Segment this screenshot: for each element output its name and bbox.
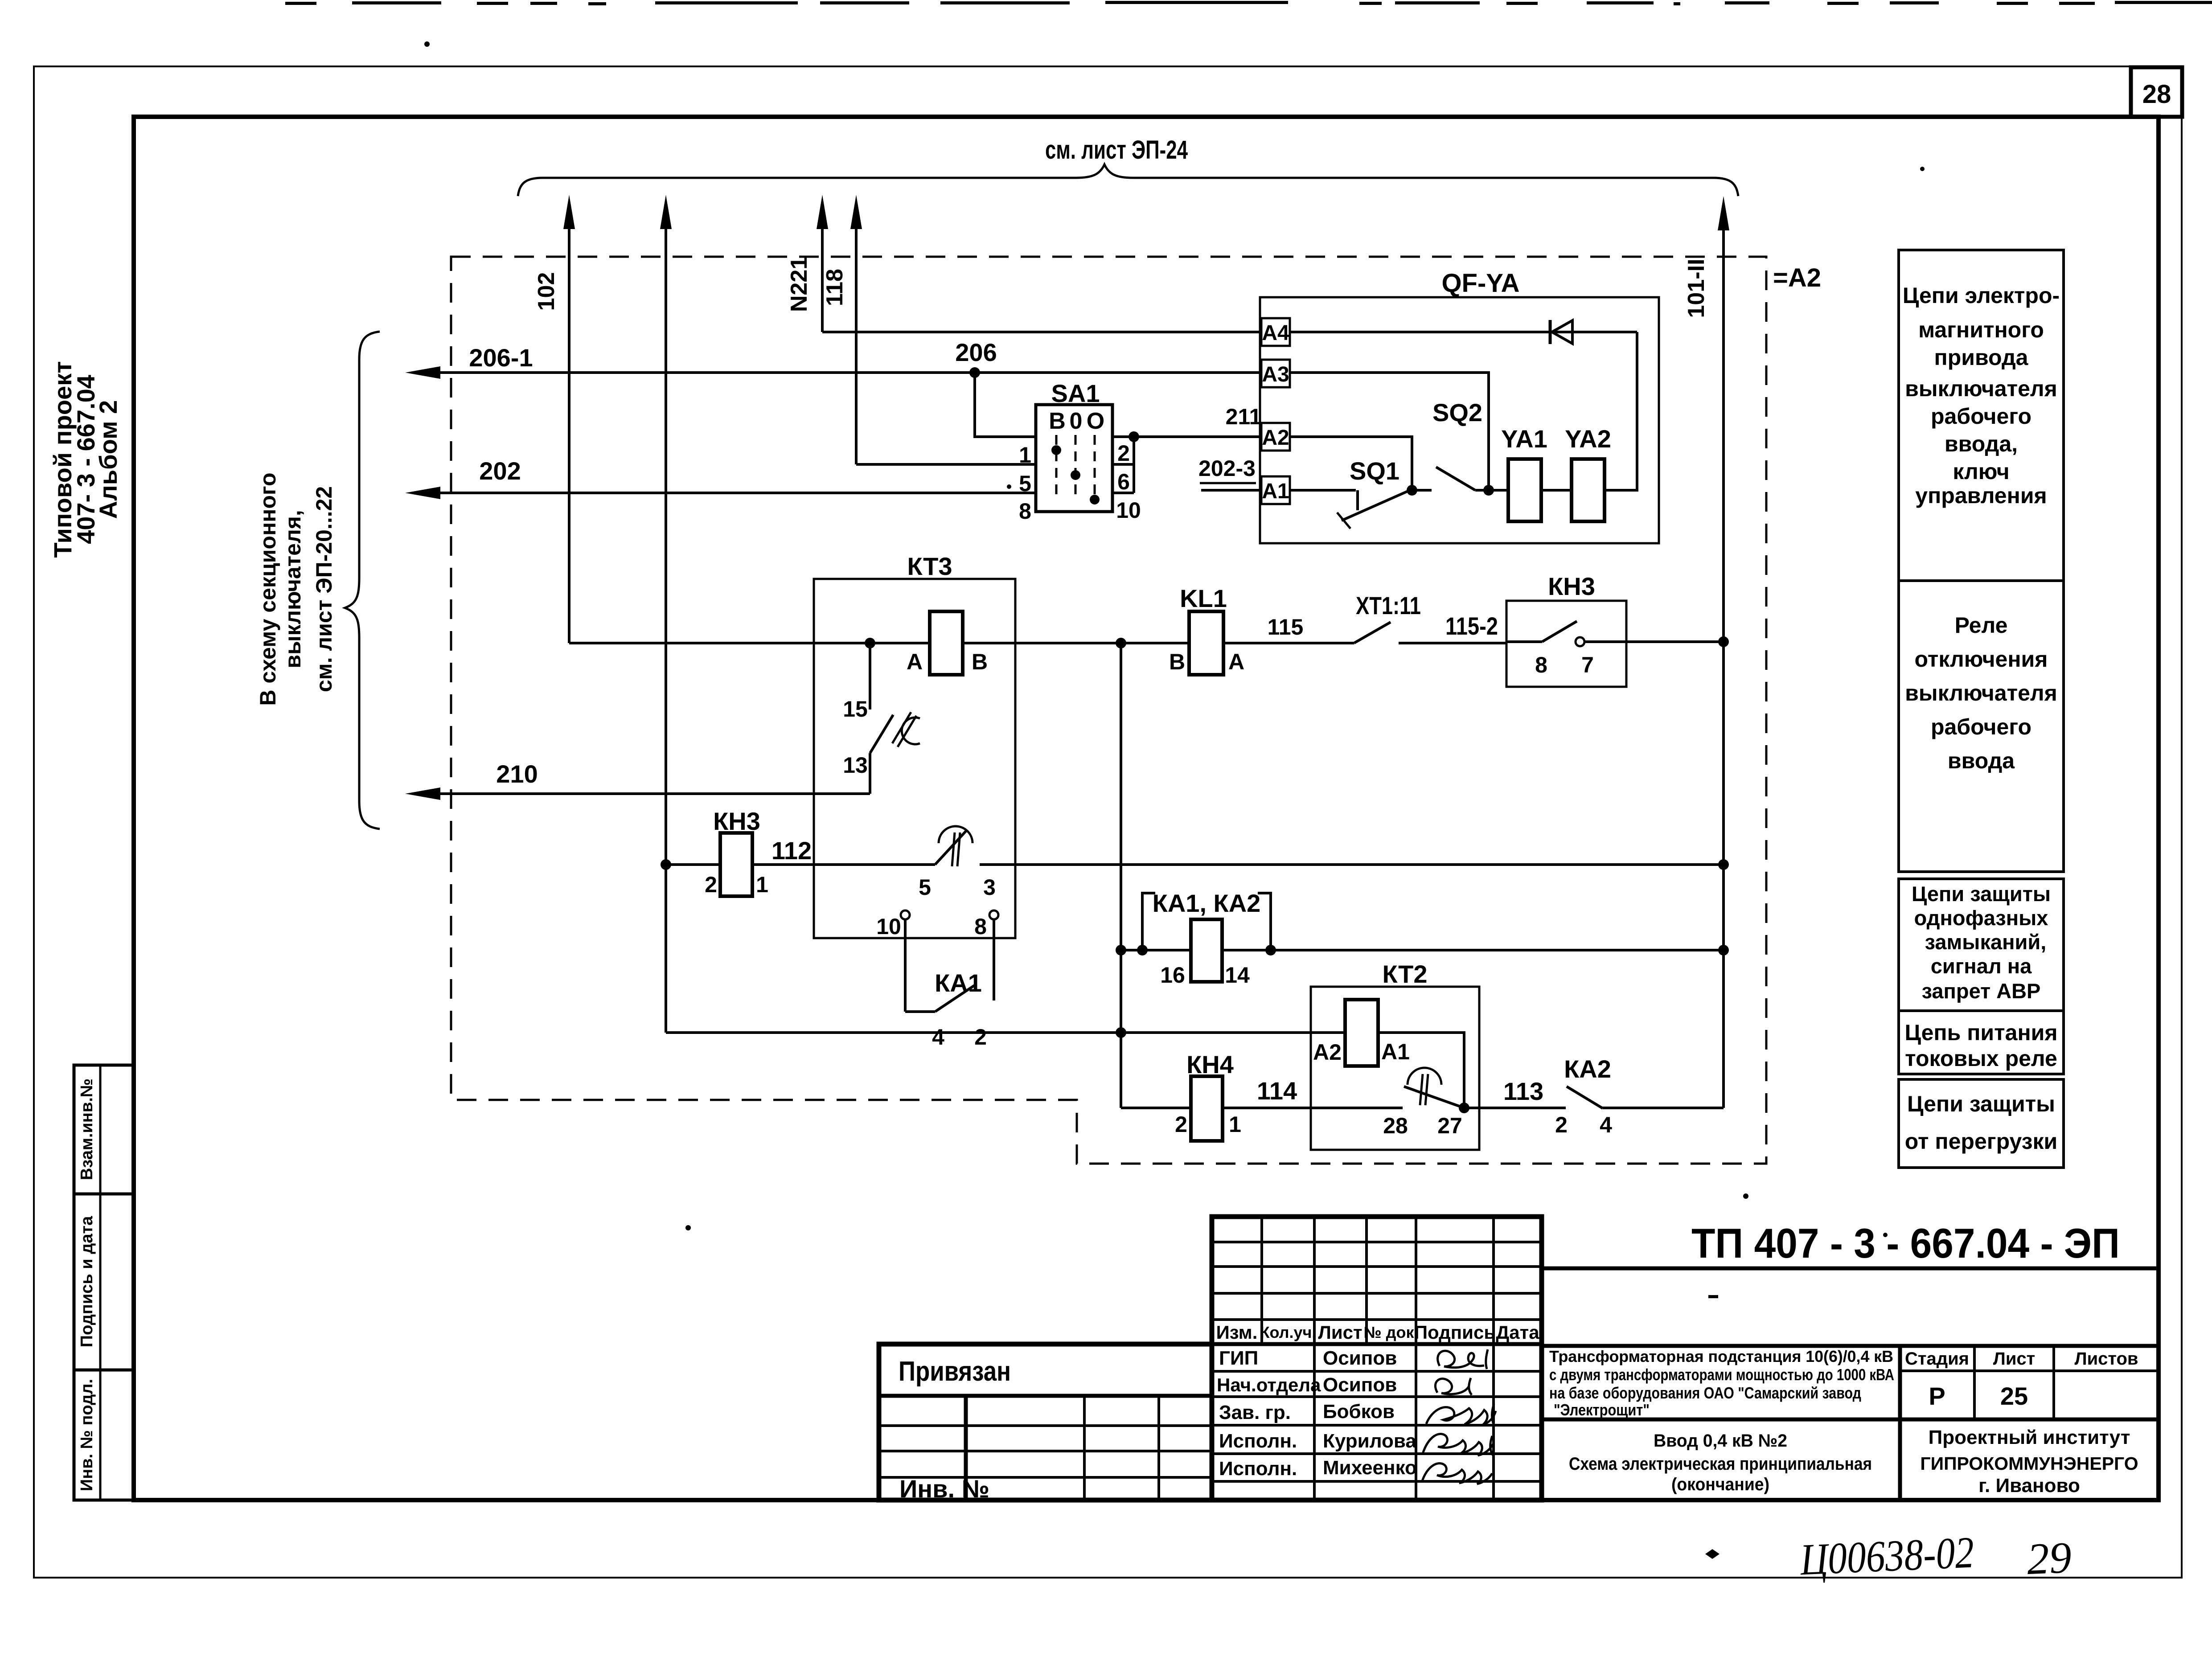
speck dot 2 <box>1920 167 1925 171</box>
wire 115 <box>1223 642 1354 644</box>
svg-text:2: 2 <box>1555 1112 1568 1137</box>
svg-text:2: 2 <box>705 872 717 897</box>
svg-text:118: 118 <box>822 269 848 306</box>
coil KT2 <box>1345 1000 1378 1066</box>
contact KA2 2-4 <box>1567 1087 1603 1108</box>
left curly brace <box>345 332 380 829</box>
binding box Привязан <box>879 1344 1212 1500</box>
wire 211 <box>1112 435 1261 438</box>
wire 118 riser with arrow <box>850 195 862 464</box>
svg-text:115: 115 <box>1268 615 1304 640</box>
junction node 101-II row1 <box>1718 636 1729 647</box>
svg-text:Цепи защиты: Цепи защиты <box>1912 882 2051 906</box>
svg-text:211: 211 <box>1226 404 1262 429</box>
svg-text:B: B <box>1049 408 1066 434</box>
title block document number area <box>1542 1217 2159 1500</box>
breaker drive unit QF-YA box <box>1260 297 1659 543</box>
KT3 pin 8 terminal <box>989 910 998 1000</box>
junction node 211 <box>1129 431 1139 442</box>
junction node KT2 row <box>1116 1027 1126 1038</box>
svg-text:запрет АВР: запрет АВР <box>1922 979 2041 1003</box>
svg-text:KL1: KL1 <box>1180 584 1227 612</box>
relay coils KA1 KA2 <box>1121 893 1271 982</box>
wire 101-II riser with arrow <box>1718 196 1729 1108</box>
wire YA2 return to diode <box>1605 332 1637 490</box>
signature 5 <box>1422 1464 1492 1484</box>
signature 4 <box>1423 1434 1493 1456</box>
svg-text:КА1: КА1 <box>935 969 982 997</box>
svg-text:16: 16 <box>1160 963 1185 988</box>
svg-text:A2: A2 <box>1313 1040 1342 1065</box>
svg-text:КН3: КН3 <box>1548 572 1595 600</box>
svg-text:25: 25 <box>2000 1382 2028 1410</box>
svg-text:с двумя трансформаторами мощно: с двумя трансформаторами мощностью до 10… <box>1549 1365 1894 1384</box>
wire 102 riser with arrow <box>563 195 575 643</box>
svg-text:ввода: ввода <box>1948 748 2015 773</box>
terminal A3 <box>1261 360 1290 387</box>
svg-text:привода: привода <box>1934 345 2029 370</box>
coil YA1 <box>1508 459 1541 521</box>
junction node KA bracket right <box>1265 945 1276 955</box>
junction node 101-II row3 <box>1718 859 1729 870</box>
svg-text:управления: управления <box>1915 483 2047 508</box>
svg-text:отключения: отключения <box>1915 647 2048 672</box>
junction node KA row left <box>1116 945 1126 955</box>
margin box Взам.инв.№ <box>74 1065 134 1194</box>
signature 1 <box>1438 1349 1488 1369</box>
svg-text:SQ1: SQ1 <box>1350 457 1399 485</box>
svg-text:10: 10 <box>876 914 901 939</box>
speck dot 4 <box>685 1225 691 1230</box>
sheet number box 28 <box>2131 67 2182 117</box>
coil KT3 <box>930 611 963 675</box>
contact KT2 28-27 time-delay <box>1404 1068 1464 1108</box>
svg-text:101-II: 101-II <box>1683 259 1709 318</box>
switch SA1 <box>1036 405 1112 512</box>
svg-text:Альбом 2: Альбом 2 <box>94 400 122 519</box>
svg-text:Подпись: Подпись <box>1414 1322 1495 1343</box>
svg-text:Нач.отдела: Нач.отдела <box>1217 1374 1321 1395</box>
speck <box>1007 484 1011 489</box>
svg-text:8: 8 <box>974 914 987 939</box>
function box Цепи защиты от перегрузки <box>1899 1079 2064 1168</box>
limit switch contact SQ1 <box>1337 489 1412 529</box>
relay KL1 coil <box>1189 611 1223 675</box>
svg-text:Инв. № подл.: Инв. № подл. <box>78 1379 96 1491</box>
terminal A4 <box>1261 318 1290 346</box>
function box Цепи электромагнитного привода <box>1899 250 2064 581</box>
terminal contact XT1:11 <box>1354 622 1391 643</box>
wire 210 with arrow <box>405 787 870 800</box>
wire KA2 to 101-II <box>1603 1107 1724 1109</box>
svg-text:Изм.: Изм. <box>1216 1322 1258 1343</box>
svg-text:0: 0 <box>1070 408 1083 434</box>
wire КН3 to 101-II <box>1626 640 1724 643</box>
terminal A2 <box>1261 423 1290 451</box>
svg-text:5: 5 <box>1019 471 1031 496</box>
handwritten inventory number Ц00638-02 29 <box>1798 1523 2072 1594</box>
svg-text:рабочего: рабочего <box>1931 404 2031 429</box>
svg-text:O: O <box>1087 408 1104 434</box>
wire SQ1 node to SQ2 <box>1412 489 1432 492</box>
function box Цепи защиты однофазных замыканий <box>1899 879 2064 1011</box>
function box Реле отключения <box>1899 581 2064 872</box>
svg-text:КА1, КА2: КА1, КА2 <box>1153 889 1261 917</box>
svg-text:от перегрузки: от перегрузки <box>1905 1129 2058 1154</box>
svg-text:A2: A2 <box>1262 426 1289 450</box>
project description <box>1549 1347 1894 1419</box>
wire 112 <box>752 863 935 866</box>
svg-text:(окончание): (окончание) <box>1671 1475 1769 1494</box>
svg-text:сигнал на: сигнал на <box>1931 954 2032 978</box>
wire riser to КТ3 circuit <box>660 195 672 1033</box>
svg-text:Привязан: Привязан <box>899 1356 1011 1387</box>
margin box Подпись и дата <box>74 1194 134 1370</box>
sheet name Ввод 0,4 кВ №2 <box>1569 1431 1872 1494</box>
svg-text:Кол.уч.: Кол.уч. <box>1260 1323 1317 1341</box>
wire 3 to 101-II <box>980 863 1724 866</box>
svg-text:B: B <box>1169 649 1185 674</box>
svg-text:10: 10 <box>1116 498 1141 523</box>
test jack КН4 <box>1191 1076 1223 1141</box>
svg-text:202-3: 202-3 <box>1198 456 1256 481</box>
wire A4 to diode loop <box>1290 331 1637 333</box>
svg-text:В схему секционного: В схему секционного <box>255 472 280 705</box>
svg-text:"Электрощит": "Электрощит" <box>1554 1401 1650 1419</box>
svg-text:102: 102 <box>534 272 559 311</box>
speck dot 3 <box>1743 1193 1748 1199</box>
svg-text:1: 1 <box>756 872 768 897</box>
time relay KT3 box <box>814 579 1015 938</box>
svg-text:Инв. №: Инв. № <box>899 1475 989 1503</box>
svg-text:Ввод 0,4 кВ №2: Ввод 0,4 кВ №2 <box>1654 1431 1787 1451</box>
junction node KT3 15 <box>865 638 875 648</box>
svg-text:Исполн.: Исполн. <box>1219 1430 1297 1452</box>
svg-text:5: 5 <box>919 875 931 900</box>
junction node SQ1 <box>1407 485 1417 496</box>
wire KT3 B to KL1 B <box>963 642 1189 644</box>
svg-text:1: 1 <box>1019 443 1031 467</box>
svg-text:магнитного: магнитного <box>1918 317 2044 342</box>
wire 206-1 to section breaker with arrow <box>405 366 1261 379</box>
contact KT3 13 time-delay <box>870 712 920 794</box>
svg-text:Цепь питания: Цепь питания <box>1904 1020 2057 1045</box>
wire 113 <box>1464 1107 1566 1109</box>
svg-text:ГИП: ГИП <box>1219 1347 1258 1369</box>
svg-text:Ц00638-02: Ц00638-02 <box>1798 1527 1975 1584</box>
svg-text:выключателя: выключателя <box>1905 681 2057 705</box>
junction node 101-II row4 <box>1718 945 1729 955</box>
svg-text:ключ: ключ <box>1953 459 2009 484</box>
svg-text:ТП 407 - 3 - 667.04 - ЭП: ТП 407 - 3 - 667.04 - ЭП <box>1691 1220 2120 1267</box>
svg-text:КН3: КН3 <box>713 807 760 835</box>
svg-text:112: 112 <box>772 836 812 865</box>
junction node KA bracket left <box>1137 945 1148 955</box>
svg-text:выключателя: выключателя <box>1905 376 2057 401</box>
diode VD <box>1550 320 1572 344</box>
label Инв. № <box>899 1475 989 1503</box>
svg-text:см. лист ЭП-24: см. лист ЭП-24 <box>1045 135 1188 164</box>
svg-text:XT1:11: XT1:11 <box>1356 591 1421 619</box>
stamp diamond mark <box>1705 1549 1720 1559</box>
svg-text:№ док.: № док. <box>1364 1323 1419 1341</box>
svg-text:28: 28 <box>2142 80 2171 109</box>
inner thick drawing frame <box>134 117 2159 1500</box>
top curly brace см. лист ЭП-24 <box>518 164 1738 196</box>
institute name <box>1920 1427 2138 1497</box>
svg-text:Зав. гр.: Зав. гр. <box>1219 1402 1291 1423</box>
dashed cabinet boundary =A2 <box>451 257 1766 1164</box>
wire 202-3 stub <box>1201 489 1261 492</box>
wire 114 <box>1223 1107 1403 1109</box>
svg-text:Р: Р <box>1929 1382 1945 1410</box>
junction node 27 <box>1459 1103 1469 1113</box>
svg-text:7: 7 <box>1581 652 1594 677</box>
svg-text:Трансформаторная подстанция 10: Трансформаторная подстанция 10(6)/0,4 кВ <box>1549 1347 1893 1365</box>
svg-text:Реле: Реле <box>1955 613 2008 638</box>
svg-text:токовых реле: токовых реле <box>1905 1046 2057 1071</box>
svg-text:29: 29 <box>2026 1533 2072 1584</box>
svg-text:ГИПРОКОММУНЭНЕРГО: ГИПРОКОММУНЭНЕРГО <box>1920 1453 2138 1474</box>
wire N221 to terminal A4 <box>822 331 1261 333</box>
limit switch contact SQ2 <box>1436 467 1475 490</box>
left note В схему секционного выключателя <box>255 472 337 705</box>
svg-text:8: 8 <box>1535 652 1547 677</box>
svg-text:Осипов: Осипов <box>1323 1374 1397 1396</box>
svg-text:202: 202 <box>479 457 521 485</box>
KT3 pin 10 terminal <box>901 910 910 1012</box>
svg-text:Взам.инв.№: Взам.инв.№ <box>78 1078 96 1180</box>
test block КН3 8-7 <box>1506 601 1626 687</box>
svg-text:Курилова: Курилова <box>1323 1430 1416 1452</box>
svg-text:Михеенко: Михеенко <box>1323 1457 1417 1479</box>
svg-text:SA1: SA1 <box>1051 379 1100 407</box>
wire KL1 branch riser <box>1120 643 1122 1108</box>
svg-text:A3: A3 <box>1262 363 1289 386</box>
svg-text:Подпись и дата: Подпись и дата <box>78 1216 96 1347</box>
svg-text:выключателя,: выключателя, <box>280 510 305 668</box>
svg-text:=A2: =A2 <box>1773 263 1821 292</box>
svg-text:КТ3: КТ3 <box>907 552 952 580</box>
wire A2 to SQ1 node <box>1290 437 1412 490</box>
wire 206 branch to SA1 pin 1 <box>975 373 1036 437</box>
svg-text:ввода,: ввода, <box>1945 431 2018 456</box>
contact KT3 5-3 time-delay <box>935 826 973 866</box>
junction node КН3 <box>661 859 671 870</box>
svg-text:QF-YA: QF-YA <box>1441 269 1519 298</box>
svg-text:B: B <box>972 649 988 674</box>
contact KA1 4-2 <box>905 985 975 1012</box>
coil YA2 <box>1572 459 1605 521</box>
svg-text:Лист: Лист <box>1318 1322 1362 1343</box>
svg-text:Цепи электро-: Цепи электро- <box>1903 283 2060 308</box>
vertical sheet title Типовой проект 407-3-667.04 Альбом 2 <box>49 361 122 558</box>
time relay KT2 box <box>1311 987 1479 1150</box>
svg-text:6: 6 <box>1117 469 1130 494</box>
svg-text:Осипов: Осипов <box>1323 1347 1397 1369</box>
svg-text:113: 113 <box>1503 1077 1543 1105</box>
svg-text:Стадия: Стадия <box>1905 1349 1969 1369</box>
svg-text:114: 114 <box>1257 1077 1297 1105</box>
svg-text:г. Иваново: г. Иваново <box>1978 1475 2080 1497</box>
speck dot <box>424 41 430 47</box>
KT3 pin 15 stub <box>869 643 871 709</box>
svg-text:1: 1 <box>1229 1112 1241 1137</box>
title block change table <box>1212 1217 1542 1500</box>
svg-text:N221: N221 <box>786 257 812 312</box>
junction node SQ2 <box>1483 485 1494 496</box>
svg-text:A4: A4 <box>1262 321 1289 345</box>
wire riser to KT2 coil <box>666 1031 1347 1034</box>
svg-text:Цепи защиты: Цепи защиты <box>1907 1091 2055 1116</box>
junction node KL1 <box>1116 638 1126 648</box>
wire YA1 to YA2 <box>1541 489 1572 492</box>
svg-text:28: 28 <box>1383 1113 1408 1138</box>
svg-text:КН4: КН4 <box>1186 1050 1234 1078</box>
svg-text:рабочего: рабочего <box>1931 714 2031 739</box>
svg-text:A: A <box>907 649 923 674</box>
function box Цепь питания токовых реле <box>1899 1011 2064 1074</box>
signature 2 <box>1435 1378 1472 1395</box>
label 202-3 <box>1198 456 1256 483</box>
svg-text:A1: A1 <box>1262 480 1289 503</box>
svg-text:13: 13 <box>843 753 868 778</box>
terminal A1 <box>1261 476 1290 504</box>
svg-text:на базе оборудования ОАО "Сама: на базе оборудования ОАО "Самарский заво… <box>1549 1384 1861 1402</box>
svg-text:замыканий,: замыканий, <box>1925 930 2047 954</box>
wire 202 with arrow <box>405 487 1036 499</box>
wire 118 branch to SA1 pin 5 <box>856 463 1036 466</box>
svg-text:8: 8 <box>1019 499 1031 524</box>
wire KA coils to 101-II <box>1271 949 1724 951</box>
svg-text:YA2: YA2 <box>1565 425 1611 453</box>
svg-text:Бобков: Бобков <box>1323 1401 1395 1423</box>
svg-text:Листов: Листов <box>2075 1349 2138 1369</box>
svg-text:Исполн.: Исполн. <box>1219 1458 1297 1480</box>
svg-text:206: 206 <box>955 338 997 366</box>
SA1 output bracket pins 2-6-10 <box>1112 437 1134 493</box>
svg-text:см. лист ЭП-20...22: см. лист ЭП-20...22 <box>312 486 337 692</box>
wire riser to КН3 <box>666 863 720 866</box>
test jack КН3 coil 2-1 <box>720 833 752 896</box>
wire 102 to KT3 coil A <box>569 642 930 644</box>
wire N221 riser with arrow <box>817 195 828 332</box>
svg-text:15: 15 <box>843 697 868 722</box>
small dash mark <box>1708 1295 1718 1298</box>
svg-text:4: 4 <box>1600 1112 1612 1137</box>
wire KT2 A1 to contact node <box>1378 1033 1464 1108</box>
svg-text:2: 2 <box>1175 1112 1187 1137</box>
svg-text:4: 4 <box>932 1025 944 1050</box>
wire riser to КН4 <box>1121 1107 1191 1109</box>
svg-text:однофазных: однофазных <box>1914 906 2048 930</box>
wire A1 <box>1290 489 1356 492</box>
signature 3 <box>1426 1404 1496 1425</box>
svg-text:КТ2: КТ2 <box>1383 960 1428 988</box>
svg-text:115-2: 115-2 <box>1445 612 1498 640</box>
svg-text:2: 2 <box>974 1025 987 1050</box>
svg-text:A: A <box>1228 649 1244 674</box>
wire A3 to SQ2 node <box>1290 373 1489 490</box>
svg-text:Лист: Лист <box>1993 1349 2036 1369</box>
svg-text:210: 210 <box>496 760 538 788</box>
svg-text:A1: A1 <box>1381 1039 1410 1064</box>
wire 115-2 <box>1399 642 1506 644</box>
wire SQ2 to YA1 <box>1475 489 1508 492</box>
svg-text:3: 3 <box>983 875 996 900</box>
svg-text:206-1: 206-1 <box>469 344 533 372</box>
junction node 206/SA1 <box>969 367 980 378</box>
svg-text:2: 2 <box>1117 441 1130 466</box>
margin box Инв.№ подл. <box>74 1370 134 1500</box>
scan edge marks top <box>285 1 2212 5</box>
speck dot 5 <box>1883 1233 1888 1237</box>
svg-text:SQ2: SQ2 <box>1432 398 1482 426</box>
svg-text:Дата: Дата <box>1496 1322 1539 1343</box>
svg-text:КА2: КА2 <box>1564 1055 1611 1083</box>
svg-text:Проектный институт: Проектный институт <box>1929 1427 2130 1448</box>
svg-text:Схема электрическая принципиал: Схема электрическая принципиальная <box>1569 1454 1872 1474</box>
svg-text:YA1: YA1 <box>1501 425 1547 453</box>
svg-text:27: 27 <box>1437 1113 1462 1138</box>
svg-text:14: 14 <box>1225 963 1250 988</box>
